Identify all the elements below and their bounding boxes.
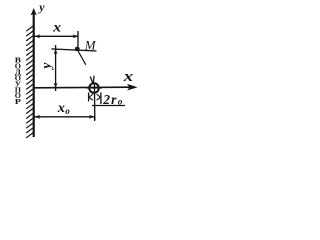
svg-text:y: y [37, 0, 45, 14]
x0 tick bottom [94, 117, 96, 121]
2r0 left extension line [88, 93, 90, 102]
y-axis arrowhead [31, 8, 37, 16]
extension line from dim x down to M [77, 31, 79, 47]
dim line x0 [35, 116, 95, 118]
svg-text:x: x [123, 69, 134, 85]
arrowhead V at well top [90, 77, 93, 83]
svg-text:2r: 2r [102, 92, 117, 107]
y-axis (wall line) [33, 13, 35, 137]
dim line x (top) [35, 35, 79, 37]
dim x right arrowhead [73, 34, 79, 38]
2r0 arrows [89, 94, 93, 100]
svg-text:Р: Р [15, 98, 22, 106]
x-axis arrowhead [127, 84, 138, 91]
2r0 leader underline [92, 105, 125, 107]
dim x left arrowhead [35, 34, 41, 38]
dim y top arrowhead [54, 49, 58, 55]
svg-text:y: y [39, 62, 54, 71]
x0 right arrowhead [89, 115, 95, 119]
svg-text:x: x [52, 21, 61, 36]
well horizontal centerline (on axis) [86, 87, 102, 89]
x0 left arrowhead [35, 115, 41, 119]
svg-text:x: x [57, 100, 66, 115]
dim line y (vertical) [55, 45, 57, 91]
svg-text:o: o [65, 106, 70, 116]
dim y bottom arrowhead [54, 83, 58, 89]
well vertical centerline [93, 83, 95, 121]
horizontal line through M [52, 49, 97, 51]
point M dot [75, 47, 80, 52]
x-axis [35, 86, 133, 89]
2r0 right extension line [100, 93, 102, 105]
diagonal leader from M toward well [78, 51, 86, 65]
well circle [89, 83, 99, 93]
wall label VODOUPOR (upright letters stacked vertically) [15, 57, 22, 106]
wall hatching [26, 26, 33, 138]
